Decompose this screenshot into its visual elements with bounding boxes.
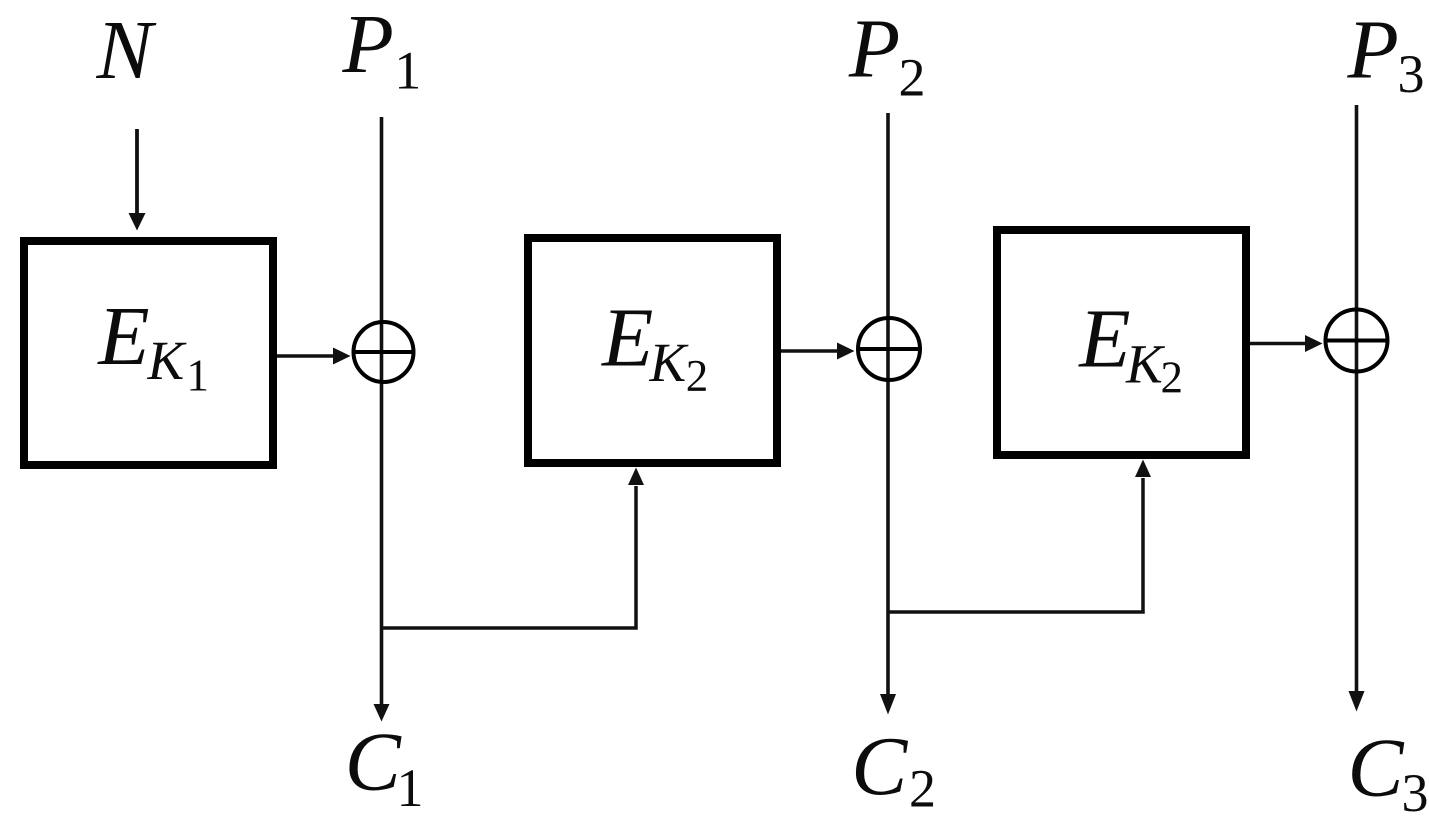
label E_K1	[97, 290, 209, 400]
label E_K2 (third)	[1078, 292, 1183, 402]
svg-text:1: 1	[187, 350, 210, 400]
wire P2 vertical line down to C2	[880, 113, 896, 715]
wire: nonce N arrow into block E_K1	[129, 129, 146, 231]
svg-text:1: 1	[397, 758, 424, 818]
svg-text:C: C	[851, 720, 908, 813]
svg-text:2: 2	[909, 759, 936, 819]
svg-text:2: 2	[899, 48, 926, 108]
svg-text:P: P	[1347, 3, 1399, 96]
svg-text:C: C	[345, 716, 402, 809]
arrow from E_K2 (third) output to xor X3	[1250, 335, 1323, 352]
svg-text:P: P	[342, 0, 394, 91]
svg-text:E: E	[601, 292, 653, 385]
svg-text:2: 2	[686, 351, 709, 401]
xor X1	[354, 322, 414, 382]
wire P1 vertical line down to C1	[374, 117, 390, 722]
node C1 label	[345, 716, 424, 819]
block E_K2 (second)	[528, 238, 777, 463]
block E_K1	[24, 241, 273, 465]
svg-text:K: K	[649, 332, 690, 393]
svg-text:C: C	[1348, 722, 1405, 815]
xor X2	[858, 318, 920, 380]
wire feedback from C1 line into bottom of E_K2	[382, 468, 645, 629]
svg-text:3: 3	[1398, 44, 1425, 104]
node P2 label	[848, 2, 926, 107]
wire feedback from C2 line into bottom of E_K2 (third)	[888, 460, 1151, 613]
svg-text:E: E	[97, 290, 149, 383]
svg-text:E: E	[1078, 292, 1130, 385]
label E_K2 (second)	[601, 292, 708, 402]
node P1 label	[342, 0, 422, 101]
svg-text:3: 3	[1402, 763, 1429, 823]
node C2 label	[851, 720, 936, 819]
arrow from E_K2 output to xor X2	[781, 343, 855, 360]
node C3 label	[1348, 722, 1429, 824]
wire P3 vertical line down to C3	[1349, 105, 1365, 712]
svg-text:N: N	[96, 4, 157, 97]
svg-text:P: P	[848, 2, 900, 95]
svg-text:1: 1	[394, 41, 421, 101]
xor X3	[1326, 310, 1388, 372]
arrow from E_K1 output to xor X1	[277, 348, 351, 365]
node P3 label	[1347, 3, 1425, 104]
block E_K2 (third)	[997, 230, 1246, 455]
svg-text:K: K	[147, 330, 188, 391]
svg-text:2: 2	[1161, 352, 1184, 402]
